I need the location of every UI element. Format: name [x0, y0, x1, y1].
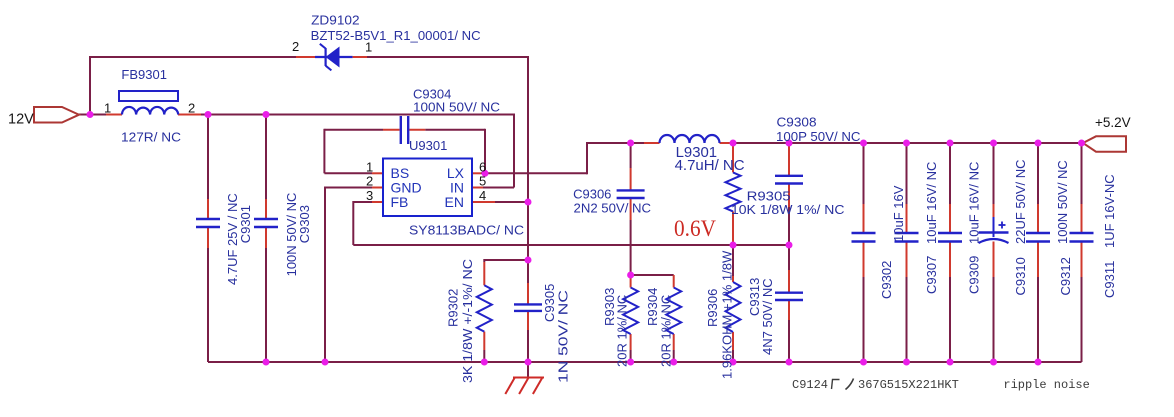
wire ZD9102 top net	[90, 56, 529, 115]
node EN junctions	[525, 199, 532, 264]
svg-text:EN: EN	[445, 194, 464, 210]
capacitor C9308	[775, 146, 803, 245]
svg-text:2: 2	[292, 39, 299, 54]
wire R9302 top branch	[484, 259, 528, 262]
svg-text:4N7 50V/ NC: 4N7 50V/ NC	[760, 278, 775, 355]
svg-text:100N 50V/ NC: 100N 50V/ NC	[413, 100, 500, 115]
ground symbol	[505, 378, 544, 395]
wire C9304 right to LX node	[409, 129, 485, 174]
node LX junction	[482, 170, 489, 177]
wire output +5.2V rail	[733, 142, 1083, 144]
svg-text:C9308: C9308	[777, 115, 817, 130]
inductor L9301	[644, 135, 733, 143]
svg-text:100P 50V/ NC: 100P 50V/ NC	[776, 129, 861, 144]
capacitor C9311	[1070, 143, 1094, 362]
node junction dots 12V rail	[87, 111, 270, 118]
svg-text:U9301: U9301	[409, 138, 447, 153]
svg-text:1N 50V/ NC: 1N 50V/ NC	[556, 290, 571, 383]
svg-text:20R 1%/ NC: 20R 1%/ NC	[615, 295, 630, 367]
svg-text:C9312: C9312	[1058, 257, 1073, 295]
connector +5.2V output	[1083, 136, 1126, 151]
svg-text:1.96KOHM +1% 1/8W: 1.96KOHM +1% 1/8W	[720, 250, 735, 379]
wire FB pin 3 to feedback row	[353, 201, 383, 245]
svg-text:ZD9102: ZD9102	[311, 13, 360, 28]
svg-text:C9303: C9303	[297, 205, 312, 243]
capacitor C9313	[775, 245, 803, 362]
svg-text:C9307: C9307	[924, 256, 939, 294]
capacitor C9307	[895, 143, 919, 362]
svg-text:FB9301: FB9301	[121, 67, 167, 82]
svg-text:10uF 16V: 10uF 16V	[891, 185, 906, 242]
resistor R9306	[726, 245, 741, 362]
svg-text:367G515X221HKT: 367G515X221HKT	[858, 378, 959, 392]
capacitor C9309	[938, 143, 962, 362]
wire LX pin 6 to output rail	[472, 143, 644, 174]
note C9124 part number	[792, 378, 959, 392]
resistor R9302	[477, 262, 492, 362]
capacitor C9312	[1026, 143, 1050, 362]
svg-text:C9124: C9124	[792, 378, 828, 392]
svg-text:2N2 50V/ NC: 2N2 50V/ NC	[574, 201, 652, 216]
svg-text:1UF 16V-NC: 1UF 16V-NC	[1102, 174, 1117, 248]
zener diode ZD9102	[296, 44, 367, 71]
capacitor C9305	[514, 260, 542, 362]
svg-text:C9311: C9311	[1102, 261, 1117, 298]
wire 12V rail	[78, 114, 515, 116]
resistor R9305	[726, 146, 741, 245]
capacitor C9304	[401, 116, 408, 144]
svg-text:20R 1%/ NC: 20R 1%/ NC	[659, 295, 674, 367]
pin numbers FB9301	[104, 101, 195, 116]
svg-text:100N 50V/ NC: 100N 50V/ NC	[1055, 160, 1070, 244]
svg-text:5: 5	[479, 174, 486, 189]
node C9306 snubber junction	[627, 272, 634, 279]
node ground rail junctions	[263, 359, 1042, 366]
svg-text:4.7uH/ NC: 4.7uH/ NC	[675, 157, 745, 174]
svg-text:1: 1	[366, 160, 373, 175]
pin numbers U9301 left	[366, 160, 373, 204]
wire C9306 bottom node to R9304	[631, 274, 674, 276]
svg-text:2: 2	[188, 101, 195, 116]
svg-text:BZT52-B5V1_R1_00001/ NC: BZT52-B5V1_R1_00001/ NC	[311, 28, 481, 43]
wire EN pin 4 net	[472, 56, 528, 260]
svg-text:127R/ NC: 127R/ NC	[121, 130, 181, 145]
pin numbers U9301 right	[479, 160, 486, 204]
connector 12V input	[34, 107, 79, 123]
svg-text:3: 3	[366, 188, 373, 203]
svg-text:C9306: C9306	[573, 187, 611, 202]
resistor R9303	[623, 275, 638, 362]
svg-text:10uF 16V/ NC: 10uF 16V/ NC	[924, 162, 939, 244]
svg-text:ripple noise: ripple noise	[1003, 378, 1089, 392]
svg-text:3K 1/8W +/-1%/ NC: 3K 1/8W +/-1%/ NC	[460, 259, 475, 383]
regulator IC U9301	[383, 159, 472, 217]
capacitor C9310	[979, 143, 1009, 362]
svg-text:22UF 50V/ NC: 22UF 50V/ NC	[1013, 159, 1028, 244]
wire ground rail	[208, 361, 1082, 363]
svg-text:C9310: C9310	[1013, 257, 1028, 295]
svg-text:FB: FB	[391, 194, 409, 210]
svg-text:+5.2V: +5.2V	[1095, 115, 1131, 130]
wire feedback row	[353, 244, 789, 246]
capacitor C9302	[852, 143, 876, 362]
svg-text:C9309: C9309	[967, 256, 982, 294]
capacitor C9301	[196, 115, 220, 363]
svg-text:2: 2	[366, 174, 373, 189]
svg-text:R9302: R9302	[445, 289, 460, 327]
capacitor C9303	[254, 115, 278, 363]
svg-text:0.6V: 0.6V	[674, 216, 716, 242]
wire IN feed	[472, 114, 514, 188]
svg-text:SY8113BADC/ NC: SY8113BADC/ NC	[409, 223, 524, 238]
svg-text:1: 1	[365, 40, 372, 55]
svg-text:R9306: R9306	[705, 289, 720, 327]
svg-text:C9302: C9302	[879, 261, 894, 299]
svg-text:1: 1	[104, 101, 111, 116]
svg-text:6: 6	[479, 160, 486, 175]
pin numbers ZD9102	[292, 39, 372, 55]
wire C9304 left to BS pin 1	[324, 129, 399, 174]
svg-text:10uF 16V/ NC: 10uF 16V/ NC	[967, 162, 982, 244]
svg-text:12V: 12V	[8, 112, 34, 128]
svg-text:10K 1/8W 1%/ NC: 10K 1/8W 1%/ NC	[731, 202, 845, 217]
node output rail junctions	[627, 140, 1085, 147]
ferrite bead FB9301	[119, 91, 178, 115]
wire GND pin 2 to ground rail	[325, 187, 383, 363]
resistor R9304	[666, 275, 681, 362]
wire ground symbol stub	[527, 362, 529, 378]
svg-text:4: 4	[479, 188, 486, 203]
pin names U9301	[391, 165, 465, 210]
node feedback row junctions	[730, 242, 793, 249]
capacitor C9306	[617, 143, 645, 275]
svg-text:C9301: C9301	[238, 205, 253, 243]
